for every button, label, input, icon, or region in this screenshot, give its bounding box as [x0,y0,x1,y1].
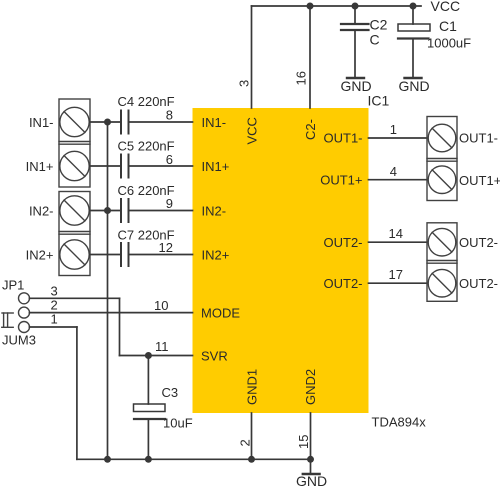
svg-text:C3: C3 [162,385,179,400]
node junction IN2- [104,207,111,214]
capacitor C1 [398,6,430,77]
wire JP1 pin2 to MODE pin 10 [30,312,193,314]
connector output terminal block 2 [427,223,457,301]
node junction bottom GND1 [248,456,255,463]
wire IN1+ to C5 [90,165,121,167]
svg-text:GND2: GND2 [303,369,318,405]
svg-text:1: 1 [390,122,397,137]
svg-text:GND1: GND1 [245,369,260,405]
node junction SVR C3 [145,352,152,359]
wire IN2+ to C7 [90,254,121,256]
terminal screw OUT1- [428,124,456,152]
wire JP1 pin3 to SVR [30,298,120,355]
svg-text:C1: C1 [439,18,457,34]
svg-text:IN2+: IN2+ [26,248,54,263]
svg-text:MODE: MODE [201,306,240,321]
svg-text:OUT1+: OUT1+ [320,173,362,188]
svg-text:GND: GND [399,78,430,94]
svg-text:12: 12 [159,240,173,255]
svg-text:VCC: VCC [245,117,260,144]
svg-text:OUT1+: OUT1+ [459,173,500,188]
terminal screw IN1+ [60,151,89,180]
IC U1 TDA894x body [193,108,369,413]
svg-text:10: 10 [154,298,168,313]
svg-text:OUT2-: OUT2- [324,235,363,250]
connector JP1 pin 2 pad [19,307,30,318]
terminal screw OUT1+ [428,166,456,194]
svg-text:IN2-: IN2- [29,204,54,219]
svg-text:10uF: 10uF [163,416,193,431]
svg-text:OUT1-: OUT1- [459,131,498,146]
svg-text:2: 2 [238,439,253,446]
connector JP1 pin 3 pad [19,293,30,304]
connector output terminal block 1 [427,117,457,201]
svg-text:TDA894x: TDA894x [372,415,427,430]
svg-text:16: 16 [294,71,309,85]
svg-text:IN1-: IN1- [202,115,227,130]
svg-text:9: 9 [166,196,173,211]
capacitor C4 [121,111,129,134]
svg-text:1: 1 [51,312,58,327]
node VCC junction C1 [410,3,417,10]
svg-text:17: 17 [389,267,403,282]
wire OUT1- pin 1 [369,137,428,139]
wire SVR pin 11 [120,355,193,357]
terminal screw IN2+ [60,240,89,269]
wire C4 to IC pin 8 [129,121,193,123]
ground under C1 [405,77,422,79]
wire pin 16 vertical [309,6,311,108]
capacitor C3 [134,356,166,460]
node junction bottom C3 [145,456,152,463]
node junction bottom x107 [104,456,111,463]
svg-text:C: C [370,32,380,48]
svg-text:1000uF: 1000uF [427,36,471,51]
wire JP1 pin1 down to bottom rail [30,327,77,459]
svg-text:4: 4 [390,164,397,179]
svg-text:OUT2-: OUT2- [324,276,363,291]
capacitor C6 [121,199,129,222]
svg-text:3: 3 [237,80,252,87]
wire IN2- to C6 [90,210,121,212]
capacitor C7 [121,243,129,266]
terminal screw OUT2- top [428,228,456,256]
terminal screw OUT2- bottom [428,269,456,297]
node VCC junction C2 [352,3,359,10]
svg-text:11: 11 [155,339,169,354]
node junction bottom GND2 [307,456,314,463]
svg-text:IN2+: IN2+ [202,248,230,263]
svg-text:SVR: SVR [201,349,228,364]
svg-text:JP1: JP1 [2,278,24,293]
wire OUT2- pin 14 [369,241,428,243]
svg-text:VCC: VCC [431,0,461,14]
connector JP1 pin 1 pad [19,322,30,333]
wire IN1- to C4 [90,121,121,123]
wire C5 to IC pin 6 [129,165,193,167]
svg-text:8: 8 [166,108,173,123]
svg-text:3: 3 [51,284,58,299]
wire VCC top rail [252,5,422,7]
svg-text:14: 14 [389,226,403,241]
capacitor C5 [121,155,129,178]
wire C6 to IC pin 9 [129,210,193,212]
wire GND1 pin 2 [251,413,253,459]
svg-text:IN1+: IN1+ [26,159,54,174]
wire GND2 pin 15 [310,413,312,459]
svg-text:JUM3: JUM3 [2,333,36,348]
svg-text:15: 15 [296,435,311,449]
wire input junction vertical [107,122,109,459]
terminal screw IN2- [60,196,89,225]
wire C7 to IC pin 12 [129,254,193,256]
wire OUT2- pin 17 [369,282,428,284]
svg-text:2: 2 [51,298,58,313]
svg-text:IN1+: IN1+ [202,159,230,174]
wire pin 3 vertical [251,6,253,108]
svg-text:IN2-: IN2- [202,204,227,219]
wire OUT1+ pin 4 [369,179,428,181]
node junction IN1- [104,119,111,126]
jumper JUM3 symbol [2,313,13,327]
svg-text:OUT1-: OUT1- [324,131,363,146]
svg-text:IC1: IC1 [368,93,390,109]
node junction pin 16 rail [307,3,314,10]
ground bottom symbol [303,459,320,474]
svg-text:C2-: C2- [303,119,318,140]
wire bottom ground rail [77,458,311,460]
ground under C2 [347,77,364,79]
svg-text:6: 6 [166,152,173,167]
svg-text:OUT2-: OUT2- [459,276,498,291]
svg-text:OUT2-: OUT2- [459,235,498,250]
connector input terminal block 2 [59,192,90,276]
svg-text:C2: C2 [370,17,388,33]
svg-text:GND: GND [296,473,327,487]
terminal screw IN1- [60,107,89,136]
capacitor C2 [341,6,369,77]
connector input terminal block 1 [59,99,90,187]
svg-text:IN1-: IN1- [29,115,54,130]
